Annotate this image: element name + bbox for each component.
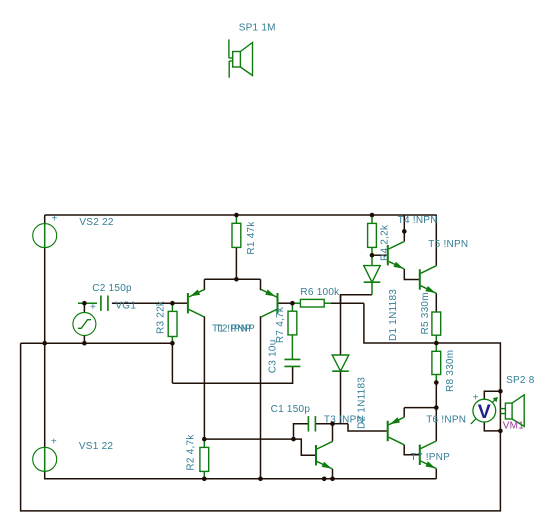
- svg-text:T5 !NPN: T5 !NPN: [428, 239, 468, 250]
- svg-text:VG1: VG1: [115, 301, 136, 312]
- transistor T5: [419, 269, 421, 289]
- wire C1 right link: [315, 423, 332, 425]
- svg-text:VS2 22: VS2 22: [79, 217, 113, 228]
- wire T2 emitter up: [260, 279, 262, 290]
- svg-text:T3 !NPN: T3 !NPN: [324, 414, 364, 425]
- svg-text:SP2 8: SP2 8: [506, 375, 535, 386]
- wire D1 bottom stub: [371, 282, 373, 295]
- wire T7 emitter down: [435, 469, 437, 479]
- transistor T1: [187, 293, 189, 313]
- voltage source VS2: [33, 224, 57, 248]
- wire R3 bottom lead: [171, 337, 173, 344]
- junction T2base-R6-R7: [290, 301, 295, 306]
- wire R5 bottom lead: [435, 335, 437, 343]
- junction rail-T2coll: [258, 477, 263, 482]
- wire T1 emitter up: [203, 279, 205, 290]
- wire T5 emitter down: [435, 293, 437, 312]
- junction T4 collector: [402, 229, 407, 234]
- diode D2: [332, 355, 349, 371]
- resistor R8: [432, 351, 441, 374]
- svg-text:T6 !NPN: T6 !NPN: [426, 414, 466, 425]
- wire T1 collector down: [203, 316, 205, 439]
- wire T6 emitter up: [403, 408, 405, 418]
- wire emitter rail: [204, 278, 260, 280]
- wire R7-C3 link: [291, 335, 293, 360]
- junction R4-D1-T4base: [370, 253, 375, 258]
- wire D2 bottom lead: [340, 371, 342, 424]
- svg-text:+: +: [51, 437, 57, 448]
- voltmeter VM1: [471, 398, 497, 424]
- wire R7 top lead: [291, 303, 293, 311]
- wire D2 top lead: [340, 295, 342, 355]
- wire R3 top lead: [171, 303, 173, 311]
- resistor R7: [288, 311, 297, 335]
- wire C2 to node A: [112, 302, 172, 304]
- wire R8-to-node vertical: [435, 383, 437, 408]
- speaker SP1: [228, 39, 230, 58]
- wire C1-D2-T3 junction horizontal: [333, 423, 349, 425]
- wire outer return loop: [21, 343, 501, 511]
- junction rail-T3em-b: [330, 477, 335, 482]
- svg-text:T2 !PNP: T2 !PNP: [216, 323, 256, 334]
- svg-text:D1 1N1183: D1 1N1183: [388, 289, 399, 341]
- svg-text:C2 150p: C2 150p: [92, 283, 132, 294]
- wire SP2 stub bottom: [500, 413, 505, 415]
- junction bus-R3: [170, 341, 175, 346]
- svg-text:R4 2,2k: R4 2,2k: [380, 224, 391, 261]
- wire T5 collector up: [435, 215, 437, 266]
- svg-text:V: V: [478, 401, 491, 423]
- svg-text:T4 !NPN: T4 !NPN: [398, 215, 438, 226]
- diode D1: [364, 266, 381, 283]
- wire T3 base: [294, 439, 316, 455]
- wire R2 top lead: [203, 439, 205, 447]
- junction output-R5-R8: [434, 341, 439, 346]
- wire T1coll-to-C1 node: [204, 438, 293, 440]
- junction emitter rail-R1: [234, 277, 239, 282]
- junction VM1 top-SP2: [498, 389, 503, 394]
- junction T1coll-R2: [202, 437, 207, 442]
- voltage source VS1: [33, 447, 57, 471]
- junction bus-VG1: [82, 341, 87, 346]
- wire D1 bottom link: [341, 295, 373, 304]
- junction rail-T3em-a: [322, 477, 327, 482]
- wire node horizontal: [404, 407, 436, 409]
- wire top positive rail: [45, 214, 437, 216]
- speaker SP2: [505, 403, 512, 419]
- wire output feedback down: [364, 303, 501, 391]
- junction C1-T3base: [291, 437, 296, 442]
- wire to T6 base: [348, 424, 387, 431]
- svg-text:R5 330m: R5 330m: [420, 292, 431, 334]
- wire T4 collector up: [403, 215, 405, 241]
- svg-text:SP1 1M: SP1 1M: [239, 23, 276, 34]
- wire VS2 top stub: [44, 215, 46, 224]
- wire R2 bottom lead: [203, 471, 205, 478]
- wire R4 top lead: [371, 215, 373, 223]
- svg-text:R6 100k: R6 100k: [300, 287, 340, 298]
- wire C1 left link: [294, 424, 309, 439]
- junction VG1-C2: [82, 301, 87, 306]
- wire R8 top lead: [435, 343, 437, 351]
- junction rail-R1: [234, 213, 239, 218]
- junction C1-D2-T3coll: [330, 421, 335, 426]
- transistor T3: [315, 445, 317, 465]
- wire SP2 stub top: [500, 408, 505, 410]
- wire T7 collector up: [435, 408, 437, 441]
- wire left rail bus-to-VS1: [44, 343, 46, 447]
- wire VM1 top lead: [484, 391, 500, 399]
- wire T4 base: [372, 254, 387, 256]
- wire VG1 bottom stub: [83, 336, 85, 344]
- junction VM1 bottom-SP2: [498, 429, 503, 434]
- junction rail-R4: [370, 213, 375, 218]
- wire R1 bottom: [235, 247, 237, 279]
- wire VG1 top stub: [83, 303, 85, 312]
- resistor R1: [232, 223, 241, 247]
- junction C2-R3-T1base: [170, 301, 175, 306]
- svg-text:R7 4,7k: R7 4,7k: [275, 306, 286, 343]
- svg-text:VS1 22: VS1 22: [79, 441, 113, 452]
- svg-text:+: +: [90, 302, 96, 313]
- capacitor C1: [307, 416, 309, 431]
- resistor R5: [432, 312, 441, 335]
- svg-text:R1 47k: R1 47k: [246, 221, 257, 255]
- wire ground bus: [21, 342, 173, 344]
- junction bus-VSrail: [42, 341, 47, 346]
- wire R4 bottom lead: [371, 247, 373, 255]
- capacitor C2: [100, 296, 102, 311]
- wire R1 top lead: [235, 215, 237, 223]
- wire T6 lower to T7 base: [404, 445, 419, 455]
- wire T2 collector down: [260, 316, 262, 479]
- wire R6 left lead: [292, 302, 300, 304]
- wire VS1 bottom corner: [45, 471, 437, 479]
- wire VM1 bottom lead: [484, 422, 500, 431]
- capacitor C3: [284, 358, 300, 360]
- wire T1 base: [172, 302, 187, 304]
- transistor T6: [387, 421, 389, 441]
- svg-text:+: +: [473, 392, 479, 403]
- wire C3 bottom horizontal: [172, 366, 292, 383]
- wire T4 emitter to T5 base: [404, 269, 419, 280]
- transistor T4: [387, 245, 389, 265]
- junction R8 bottom: [434, 380, 439, 385]
- wire R8 bottom lead: [435, 375, 437, 383]
- resistor R2: [200, 447, 209, 471]
- svg-text:C1 150p: C1 150p: [271, 404, 311, 415]
- svg-text:T7 !PNP: T7 !PNP: [411, 452, 451, 463]
- svg-text:R2 4,7k: R2 4,7k: [185, 434, 196, 471]
- wire T2 base: [278, 302, 292, 304]
- wire left rail VS2-to-bus: [44, 248, 46, 344]
- junction output stage node: [434, 405, 439, 410]
- transistor T2: [277, 293, 279, 313]
- wire T3 collector up: [332, 424, 334, 442]
- wire T3 emitter down: [332, 469, 334, 479]
- resistor R4: [368, 223, 377, 247]
- resistor R6: [300, 299, 324, 307]
- svg-text:+: +: [52, 213, 58, 224]
- generator VG1: [73, 313, 96, 336]
- transistor T7: [419, 445, 421, 465]
- wire speaker column: [499, 391, 501, 431]
- junction rail-R2: [202, 477, 207, 482]
- wire D1 top lead: [371, 255, 373, 265]
- wire C2 left stub: [78, 302, 97, 304]
- wire bus-to-C3bottom vertical: [171, 343, 173, 383]
- svg-text:R8 330m: R8 330m: [445, 350, 456, 392]
- svg-text:VM1: VM1: [503, 421, 525, 432]
- resistor R3: [168, 311, 177, 336]
- svg-text:C3 10u: C3 10u: [267, 339, 278, 373]
- svg-text:R3 22k: R3 22k: [156, 300, 167, 334]
- wire R6 right lead: [324, 302, 331, 304]
